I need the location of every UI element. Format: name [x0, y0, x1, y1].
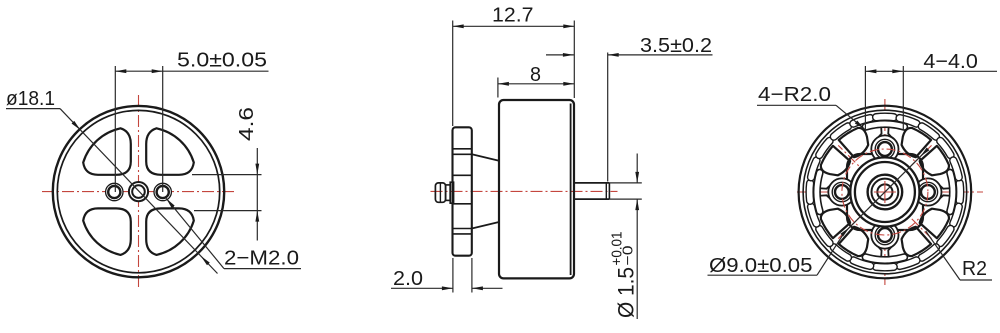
center hub outer circle: [129, 182, 148, 201]
svg-text:R2: R2: [962, 257, 987, 280]
screw hole N D4: [875, 139, 894, 158]
motor body inner lip line: [570, 104, 572, 276]
knurl dash 18: [918, 123, 939, 140]
knurl dash 5: [896, 257, 920, 269]
knurl dash 10: [808, 203, 820, 227]
knurl dash 17: [896, 115, 920, 127]
dim 2.0 extension left: [452, 258, 454, 293]
outer circle D18.1: [53, 106, 224, 277]
dim 4-4.0 line: [865, 70, 997, 72]
screw boss E: [914, 178, 941, 205]
knurl dash 11: [806, 180, 814, 205]
wing petal NW side-b: [839, 128, 868, 157]
svg-text:2−M2.0: 2−M2.0: [224, 247, 299, 270]
dim 5.0 extension line right: [162, 66, 164, 192]
dim 3.5 line right: [608, 54, 713, 56]
dim 4-4.0 extensions: [864, 66, 866, 130]
knurl dash 2: [950, 203, 962, 227]
svg-text:3.5±0.2: 3.5±0.2: [640, 34, 712, 57]
knurl dash 1: [956, 180, 964, 205]
shaft end cap left: [435, 183, 445, 202]
cutout lower-right: [146, 208, 194, 255]
knurl dash 19: [937, 137, 954, 158]
screw hole E D4: [918, 182, 937, 201]
dim 5.0 dimension line: [115, 70, 268, 72]
dim 3.5 extension: [607, 53, 609, 182]
center hub inner circle: [132, 185, 145, 198]
leader D18.1 diagonal: [60, 109, 218, 274]
shaft centerline cross: [874, 191, 896, 193]
dim 12.7 extension left: [452, 21, 454, 127]
centerline horizontal middle view: [431, 190, 618, 192]
T slot S: [862, 254, 907, 263]
knurl dash 14: [830, 123, 851, 140]
screw boss N: [871, 135, 898, 162]
dim 2.0 extension right: [471, 258, 473, 293]
centerline vertical left view: [138, 95, 140, 289]
leader 2-M2.0 underline: [224, 268, 301, 270]
wing petal SE side-a: [920, 209, 949, 238]
leader 2-M2.0 diagonal: [166, 198, 224, 268]
screw hole W D4: [832, 182, 851, 201]
mounting hole left M2: [106, 183, 123, 200]
wing petal SW side-b: [821, 209, 850, 238]
dim D1.5 line: [636, 154, 638, 183]
dim 4.6 dimension line: [256, 148, 258, 241]
wing petal NW side-a: [821, 146, 850, 175]
wing petal NE side-b: [920, 146, 949, 175]
dim 3.5 line left: [546, 54, 574, 56]
svg-text:−0: −0: [621, 246, 637, 266]
T slot N: [862, 121, 907, 130]
T slot E: [947, 169, 956, 214]
svg-text:ø18.1: ø18.1: [6, 87, 55, 110]
shaft right: [574, 182, 609, 184]
knurl dash 20: [950, 157, 962, 181]
cutout upper-right: [146, 128, 194, 175]
knurl dash 7: [850, 257, 874, 269]
svg-text:5.0±0.05: 5.0±0.05: [177, 49, 267, 72]
screw boss S: [871, 221, 898, 248]
svg-text:Ø9.0±0.05: Ø9.0±0.05: [709, 254, 813, 277]
knurl dash 3: [937, 225, 954, 246]
centerline horizontal left view: [42, 191, 236, 193]
knurl dash 4: [918, 244, 939, 261]
centerline diagonal NE-SW: [838, 145, 931, 238]
shaft hole: [877, 184, 892, 199]
dim 8 line: [498, 83, 574, 85]
dim 2.0 line left: [391, 287, 453, 289]
svg-text:Ø 1.5: Ø 1.5: [614, 267, 639, 318]
center hub rings: [850, 157, 919, 226]
svg-text:4−4.0: 4−4.0: [923, 50, 978, 73]
knurl dash 13: [816, 137, 833, 158]
outer circle right view: [799, 106, 972, 279]
dim D1.5 extension bottom: [609, 198, 641, 200]
screw hole S D4: [875, 225, 894, 244]
centerline vertical right view: [884, 99, 886, 285]
dim D1.5 extension top: [609, 182, 641, 184]
dim 12.7 extension right: [573, 21, 575, 99]
knurl dash 15: [850, 115, 874, 127]
flange step lines: [453, 148, 472, 150]
svg-text:4.6: 4.6: [235, 107, 258, 141]
dim 12.7 line: [453, 25, 575, 27]
dim 4.6 extension line top: [192, 174, 262, 176]
leader D18.1 underline: [6, 108, 60, 110]
screw boss W: [828, 178, 855, 205]
bell cone top: [472, 154, 499, 161]
inner rim circle right view: [803, 110, 967, 274]
mounting hole right M2: [154, 183, 171, 200]
cutout upper-left: [83, 128, 131, 175]
knurl dash 6: [873, 263, 898, 271]
svg-text:12.7: 12.7: [492, 4, 534, 27]
bolt circle D9.0: [842, 149, 928, 235]
mount flange: [453, 127, 472, 255]
dim 8 extension left: [497, 78, 499, 98]
wing petal NE side-a: [902, 128, 931, 157]
svg-text:8: 8: [530, 63, 541, 86]
center square boss: [847, 154, 923, 230]
knurl dash 8: [830, 244, 851, 261]
dim 5.0 extension line left: [114, 66, 116, 192]
shaft stub neck left: [446, 185, 451, 201]
knurl dash 16: [873, 113, 898, 121]
svg-text:2.0: 2.0: [393, 267, 423, 290]
knurl dash 12: [808, 157, 820, 181]
shaft boss left: [450, 182, 453, 203]
svg-text:4−R2.0: 4−R2.0: [758, 83, 831, 106]
wing petal SE side-b: [902, 227, 931, 256]
T slot W: [814, 169, 823, 214]
centerline diagonal NW-SE: [838, 145, 931, 238]
bell cone bottom: [472, 222, 499, 229]
knurl dash 9: [816, 225, 833, 246]
inner rim circle: [57, 110, 219, 272]
dim 2.0 line right: [472, 287, 503, 289]
centerline horizontal right view: [797, 191, 983, 193]
dim 4.6 extension line bottom: [194, 210, 262, 212]
wing petal SW side-a: [839, 227, 868, 256]
cutout lower-left: [83, 208, 131, 255]
motor body: [499, 100, 574, 278]
